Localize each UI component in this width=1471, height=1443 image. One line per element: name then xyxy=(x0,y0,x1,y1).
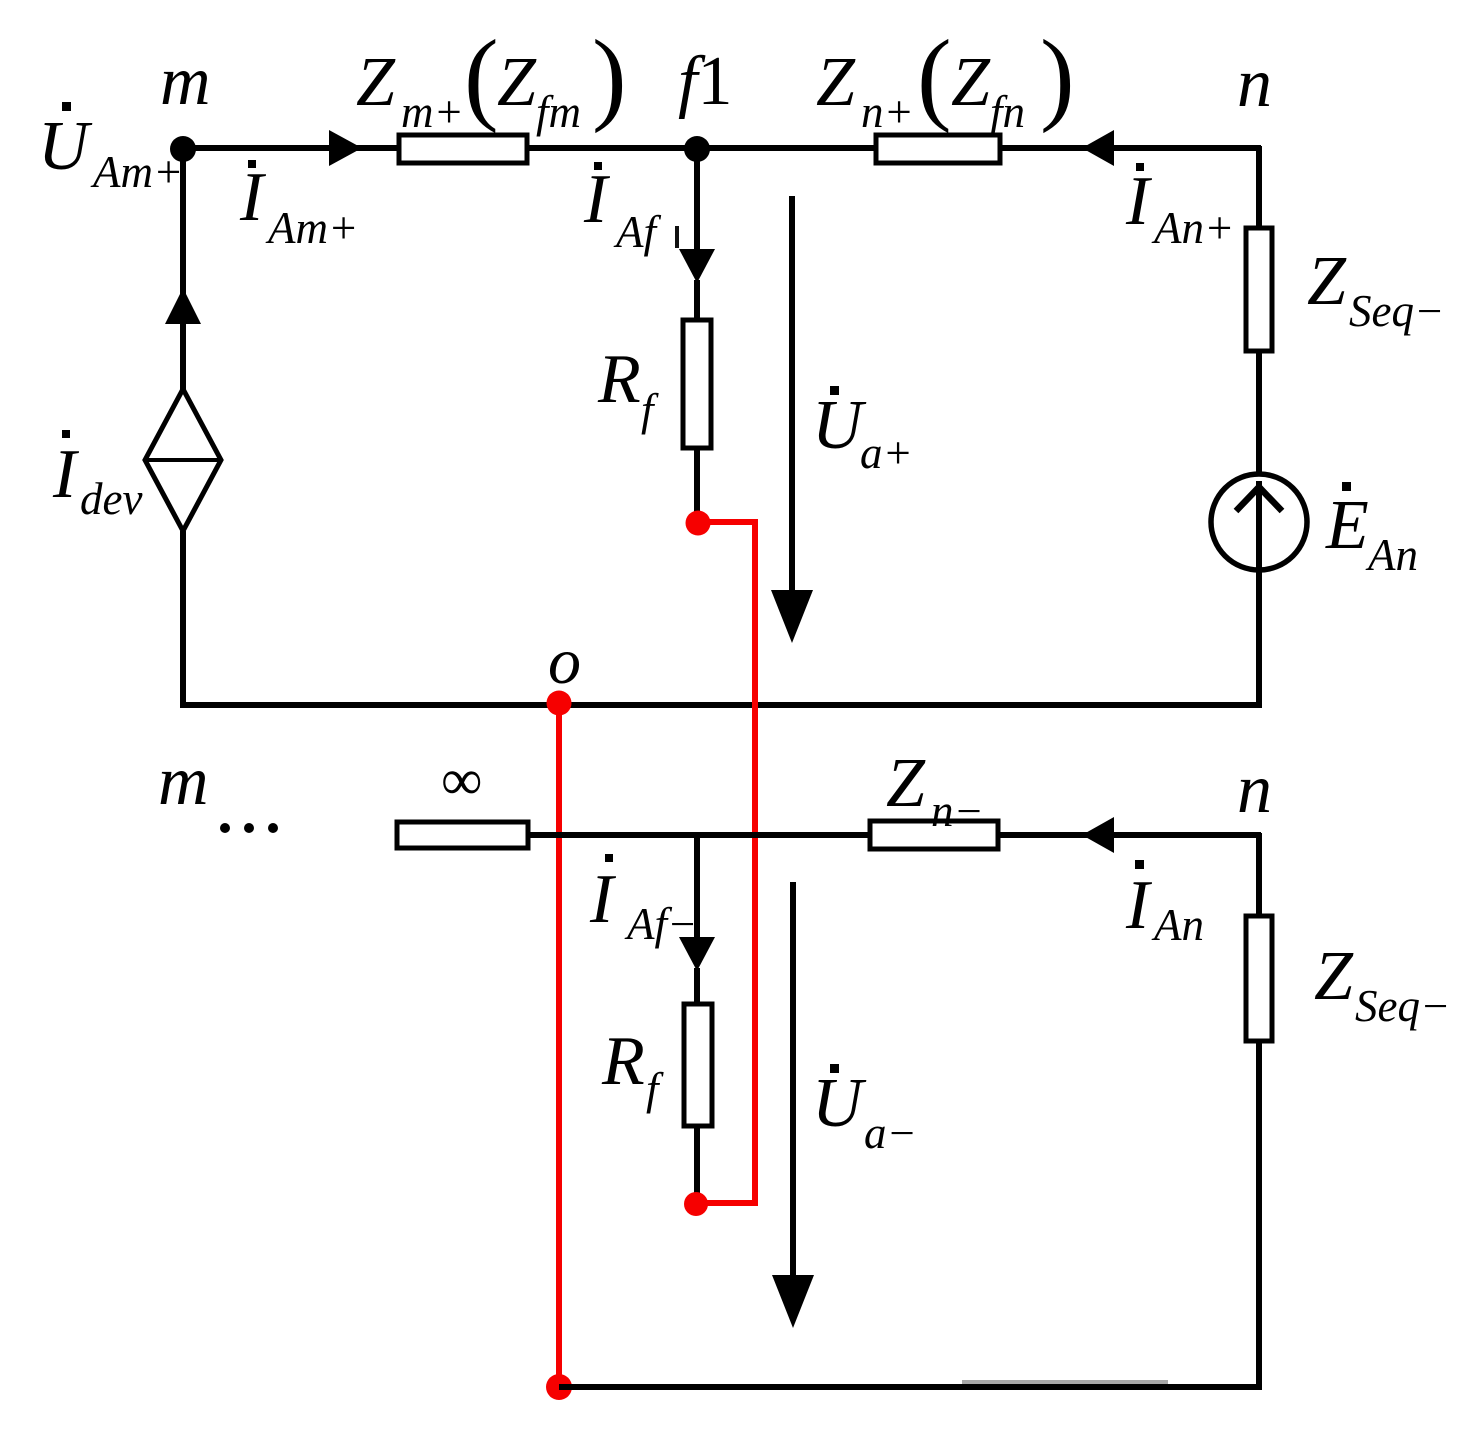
wire: Z_Seq- down to bottom bus xyxy=(1256,1041,1262,1390)
wire: source to bottom bus xyxy=(1256,566,1262,708)
resistor infinity xyxy=(397,822,528,848)
node m xyxy=(170,136,196,162)
svg-text:I: I xyxy=(1125,867,1153,944)
label Z_n+ (Z_fn) xyxy=(816,19,1075,137)
node f1 label xyxy=(678,43,732,120)
svg-text:(: ( xyxy=(917,19,952,134)
label I_An xyxy=(1125,860,1204,950)
wire: bottom network top bus xyxy=(528,832,1261,838)
label U_a+ xyxy=(812,386,913,478)
svg-text:Am+: Am+ xyxy=(265,203,358,253)
wire: arrow to R_f (bottom) xyxy=(694,968,700,1006)
svg-text:R: R xyxy=(597,341,641,418)
svg-text:U: U xyxy=(38,108,93,185)
arrow I up on left branch xyxy=(165,288,201,324)
arrow U_a+ (long voltage arrow) xyxy=(771,196,813,643)
label Z_n- xyxy=(886,745,984,836)
resistor Z_n- xyxy=(870,821,998,849)
label E_An xyxy=(1325,482,1418,580)
svg-text:fm: fm xyxy=(536,87,581,137)
arrow I_An+ on wire n-f1 xyxy=(1082,130,1114,166)
svg-text:n: n xyxy=(1237,45,1272,122)
label I_Af1 xyxy=(583,161,679,257)
svg-text:m: m xyxy=(158,743,209,820)
wire: bottom bus of negative network xyxy=(559,1384,1261,1390)
svg-text:I: I xyxy=(1125,163,1153,240)
label Z_Seq- (bottom) xyxy=(1314,938,1450,1031)
svg-text:f: f xyxy=(646,1064,664,1114)
svg-text:Z: Z xyxy=(356,44,396,121)
resistor Z_n+ (Z_fn) xyxy=(876,135,1000,163)
svg-text:An+: An+ xyxy=(1151,203,1234,253)
resistor Z_Seq- (bottom) xyxy=(1246,916,1272,1041)
label Z_Seq- (top) xyxy=(1307,243,1444,336)
svg-text:n−: n− xyxy=(931,786,984,836)
wire: n corner down xyxy=(1256,146,1262,230)
wire: m down to dependent source xyxy=(180,149,186,391)
arrow U_a- (long voltage arrow, bottom) xyxy=(772,882,814,1328)
svg-text:o: o xyxy=(548,625,581,698)
svg-text:): ) xyxy=(1040,19,1075,134)
wire: bottom bus of top network xyxy=(181,702,1261,708)
source E_An (circle with up arrow) xyxy=(1211,474,1307,570)
red wire: fault link right and down xyxy=(697,522,755,1203)
svg-text:I: I xyxy=(52,436,80,513)
svg-text:Z: Z xyxy=(816,44,856,121)
wire: fault branch down (bottom) xyxy=(694,835,700,938)
wire: arrow to R_f xyxy=(694,280,700,322)
wire: diamond down to bottom bus xyxy=(180,531,186,708)
svg-text:R: R xyxy=(601,1023,645,1100)
node n label xyxy=(1237,45,1272,122)
svg-text:n+: n+ xyxy=(861,87,914,137)
resistor R_f (bottom) xyxy=(684,1004,712,1126)
wire: top bus f1 to n xyxy=(697,145,1261,151)
svg-text:I: I xyxy=(589,861,617,938)
wire: Z_Seq- to source xyxy=(1256,351,1262,478)
red node: bottom of R_f (bottom) xyxy=(684,1192,708,1216)
svg-text:m: m xyxy=(160,43,211,120)
arrow I_Af down xyxy=(679,249,715,283)
label I_dev xyxy=(52,430,142,524)
label I_Af- xyxy=(589,854,697,949)
svg-text:∞: ∞ xyxy=(441,747,482,812)
node n label (bottom) xyxy=(1237,751,1272,828)
svg-text:An: An xyxy=(1151,900,1204,950)
svg-text:U: U xyxy=(812,387,867,464)
arrow I_Am+ on wire m-f1 xyxy=(329,130,362,166)
svg-text:An: An xyxy=(1365,530,1418,580)
node m label xyxy=(160,43,211,120)
svg-text:Z: Z xyxy=(1307,243,1347,320)
wire: R_f to fault point xyxy=(694,448,700,523)
svg-text:(: ( xyxy=(464,19,499,134)
svg-text:a+: a+ xyxy=(860,428,913,478)
node m label (bottom) xyxy=(158,743,209,820)
label I_An+ xyxy=(1125,163,1234,253)
svg-text:Af: Af xyxy=(613,207,661,257)
resistor Z_Seq- (top) xyxy=(1246,228,1272,351)
svg-text:f: f xyxy=(641,385,659,435)
svg-text:n: n xyxy=(1237,751,1272,828)
svg-text:fn: fn xyxy=(990,87,1025,137)
svg-text:E: E xyxy=(1325,487,1369,564)
svg-text:m+: m+ xyxy=(401,87,464,137)
svg-text:dev: dev xyxy=(80,474,142,524)
ellipsis ... xyxy=(220,823,278,833)
red wire: node o down to bottom network xyxy=(556,705,562,1387)
svg-text:Z: Z xyxy=(497,44,537,121)
node o (red) xyxy=(547,691,572,716)
node f1 xyxy=(684,136,710,162)
resistor Z_m+ (Z_fm) xyxy=(399,135,527,163)
wire: top bus m to f1 xyxy=(183,145,697,151)
node o label xyxy=(548,625,581,698)
faint artifact line xyxy=(962,1380,1168,1384)
svg-text:Z: Z xyxy=(951,44,991,121)
svg-text:Am+: Am+ xyxy=(90,147,183,197)
svg-text:a−: a− xyxy=(864,1108,917,1158)
label R_f (top) xyxy=(597,341,659,435)
label I_Am+ xyxy=(239,159,358,253)
svg-text:Z: Z xyxy=(1314,938,1354,1015)
arrow I_Af- down xyxy=(679,937,715,971)
arrow I_An on wire n (bottom) xyxy=(1082,817,1114,853)
red node: bottom of R_f (top) xyxy=(686,511,711,536)
svg-text:Seq−: Seq− xyxy=(1349,286,1444,336)
wire: R_f to fault point (bottom) xyxy=(694,1126,700,1204)
label infinity xyxy=(441,747,482,812)
label U_Am+ xyxy=(38,102,183,197)
wire: n corner down (bottom) xyxy=(1256,833,1262,918)
svg-text:): ) xyxy=(592,19,627,134)
svg-text:I: I xyxy=(239,159,267,236)
label R_f (bottom) xyxy=(601,1023,664,1114)
svg-text:I: I xyxy=(583,161,611,238)
svg-text:Z: Z xyxy=(886,745,926,822)
svg-text:Af−: Af− xyxy=(624,899,697,949)
svg-text:f1: f1 xyxy=(678,43,732,120)
svg-text:U: U xyxy=(812,1065,867,1142)
dependent current source I_dev (diamond) xyxy=(145,389,221,531)
svg-text:Seq−: Seq− xyxy=(1355,981,1450,1031)
label U_a- xyxy=(812,1064,917,1158)
red node: bottom-left of negative network xyxy=(546,1374,572,1400)
label Z_m+ (Z_fm) xyxy=(356,19,627,137)
resistor R_f (top) xyxy=(683,320,711,448)
wire: f1 down xyxy=(694,149,700,250)
